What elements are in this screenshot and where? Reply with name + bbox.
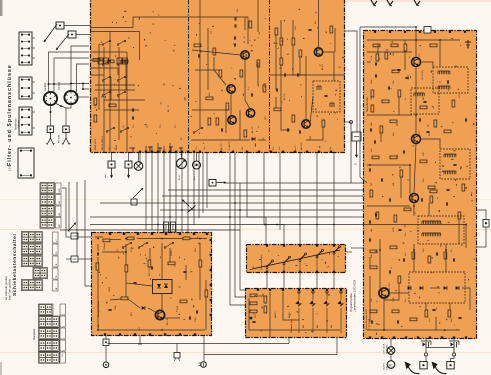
antenna glyph xyxy=(387,0,393,6)
terminal pad D right xyxy=(210,254,212,256)
terminal pad E1 xyxy=(266,271,268,273)
strip label box xyxy=(53,232,59,243)
connector block J3 xyxy=(19,107,32,135)
wire A left grid xyxy=(90,74,104,76)
junction xyxy=(53,83,55,85)
label A right xyxy=(283,93,286,100)
wire A right xyxy=(299,57,301,75)
wire B xyxy=(445,244,447,272)
label speck xyxy=(405,252,407,256)
resistor R24 xyxy=(372,156,379,159)
wire xyxy=(175,153,177,232)
antenna arm xyxy=(56,34,69,50)
wire D xyxy=(185,265,187,280)
wire A left grid xyxy=(90,68,118,75)
resistor R35 xyxy=(448,310,451,317)
svg-text:35V: 35V xyxy=(195,248,197,252)
wire junction xyxy=(409,164,411,166)
junction ring xyxy=(424,353,427,356)
wire junction xyxy=(157,224,159,226)
resistor R38 xyxy=(183,237,190,240)
terminal pad B top xyxy=(389,31,391,33)
wire loop to connector xyxy=(477,210,486,220)
wire D xyxy=(110,239,121,241)
terminal pad A xyxy=(193,151,195,153)
junction xyxy=(70,83,72,85)
terminal pad B xyxy=(429,336,431,338)
terminal pad D right xyxy=(210,314,212,316)
wire antenna to block A xyxy=(64,25,91,27)
terminal pad E1 xyxy=(283,271,285,273)
capacitor C13 xyxy=(369,168,370,171)
label A left xyxy=(147,124,149,128)
diode D9 xyxy=(323,291,329,333)
terminal tee xyxy=(148,147,152,153)
transistor T5 xyxy=(314,48,322,56)
terminal pad A xyxy=(282,151,284,153)
terminal pad B top xyxy=(404,31,406,33)
terminal pad A xyxy=(232,151,234,153)
connector circle xyxy=(103,362,109,368)
wire xyxy=(240,183,245,290)
wire can row4 xyxy=(78,96,90,98)
switch contact strip S3 xyxy=(40,206,54,217)
label speck xyxy=(209,92,211,96)
component box xyxy=(71,256,78,262)
label speck xyxy=(393,226,395,232)
capacitor C25 xyxy=(252,321,255,322)
resistor R20 xyxy=(371,90,374,97)
wire B xyxy=(421,139,441,149)
capacitor xyxy=(251,93,252,96)
wire A mid xyxy=(245,59,250,109)
transistor T7 xyxy=(412,58,421,67)
wire junction xyxy=(415,26,417,28)
capacitor xyxy=(308,29,311,30)
label D xyxy=(167,317,169,325)
terminal pad A xyxy=(318,151,320,153)
strip label box xyxy=(56,206,62,217)
resistor R1 xyxy=(93,59,100,62)
label Netztaste xyxy=(62,354,64,357)
wire xyxy=(351,247,363,249)
wire D xyxy=(205,280,207,290)
wire D xyxy=(97,257,99,263)
resistor xyxy=(410,318,417,321)
wire B xyxy=(415,31,417,58)
wire A mid bottom xyxy=(258,139,266,141)
lamp symbol dial xyxy=(387,347,395,355)
resistor R23 xyxy=(434,120,437,127)
capacitor xyxy=(183,271,186,272)
capacitor xyxy=(405,77,408,78)
inline box xyxy=(131,199,137,205)
label speck xyxy=(405,298,407,302)
svg-text:Stereo Decoder 6022: Stereo Decoder 6022 xyxy=(365,308,368,330)
svg-text:AM ZF VERST.: AM ZF VERST. xyxy=(101,135,104,150)
motor symbol xyxy=(387,361,395,369)
capacitor C23 xyxy=(189,316,190,319)
label speck xyxy=(195,248,197,252)
label speck xyxy=(322,259,324,260)
wire xyxy=(336,338,338,355)
module block E2 (switch diodes) fill xyxy=(245,288,347,338)
wire junction xyxy=(413,205,415,207)
print texture block D xyxy=(98,236,200,330)
resistor xyxy=(257,60,260,67)
rotary switch contact P5 xyxy=(333,246,341,273)
capacitor C3 xyxy=(234,36,235,39)
label auf Leiterseite gesehen xyxy=(5,275,12,300)
wire D xyxy=(190,238,207,240)
resistor R37 xyxy=(127,237,134,240)
resistor R48 xyxy=(264,306,267,313)
wire B xyxy=(413,244,415,272)
terminal pad B xyxy=(393,336,395,338)
wire to plug xyxy=(451,356,455,361)
wire xyxy=(193,153,195,225)
wire D xyxy=(199,243,201,260)
label speck xyxy=(379,57,381,60)
wire can row xyxy=(49,83,72,85)
wire D xyxy=(137,238,183,240)
wire E2 xyxy=(269,292,271,338)
wire B xyxy=(458,219,460,244)
wire junction xyxy=(193,202,195,204)
module block D (power supply) fill xyxy=(91,232,212,336)
capacitor xyxy=(151,266,152,269)
terminal pad B top xyxy=(374,31,376,33)
wire xyxy=(235,153,245,297)
label speck xyxy=(109,287,111,292)
resistor xyxy=(462,184,465,191)
terminal pad E2 top xyxy=(298,289,300,291)
strip label box xyxy=(53,280,59,291)
svg-text:AF 126: AF 126 xyxy=(251,126,254,133)
wire A left vert xyxy=(118,47,120,140)
wire A mid xyxy=(199,0,201,128)
resistor xyxy=(370,266,377,269)
wire junction xyxy=(316,224,318,226)
strip label box xyxy=(53,256,59,267)
crystal symbol xyxy=(174,353,180,362)
label speck xyxy=(371,96,373,100)
capacitor xyxy=(389,198,390,201)
label speck xyxy=(459,94,461,98)
svg-text:Filter- und Spulenanschlüsse: Filter- und Spulenanschlüsse xyxy=(7,64,13,166)
label D xyxy=(97,300,100,317)
switch contact strip K5 xyxy=(39,352,60,363)
antenna glyph xyxy=(371,0,377,6)
terminal pad E2 top xyxy=(282,289,284,291)
label speck xyxy=(145,253,147,256)
resistor R16 xyxy=(373,44,380,47)
diode D3 xyxy=(420,286,423,290)
label lug xyxy=(58,134,61,143)
wire A left vert xyxy=(125,60,127,90)
diode D5 xyxy=(456,286,459,290)
switch contact strip K2 xyxy=(39,316,60,327)
terminal pad A xyxy=(181,151,183,153)
capacitor xyxy=(287,128,288,131)
connector block J2 xyxy=(19,77,32,99)
wire A right xyxy=(318,0,320,48)
label speck xyxy=(115,144,118,150)
wire A mid xyxy=(192,109,228,111)
terminal pad B xyxy=(381,336,383,338)
capacitor C2 xyxy=(235,24,236,27)
terminal pad E1 top xyxy=(283,245,285,247)
wire strips to D xyxy=(78,258,91,260)
svg-text:UKW: UKW xyxy=(59,188,61,193)
svg-text:MW: MW xyxy=(59,201,61,205)
label speck xyxy=(315,20,317,24)
wire can F2 top2 xyxy=(77,64,90,92)
plug box xyxy=(420,362,427,369)
wire A right xyxy=(310,96,313,124)
wire xyxy=(162,195,363,197)
capacitor xyxy=(132,116,133,119)
resistor R15 xyxy=(292,115,295,122)
resistor xyxy=(428,256,431,263)
wire A left vert xyxy=(110,77,112,100)
component box above D xyxy=(164,222,169,232)
svg-text:BZY: BZY xyxy=(131,311,133,316)
svg-text:Lamellenschalter 3U02-0038: Lamellenschalter 3U02-0038 xyxy=(354,279,357,312)
resistor xyxy=(94,98,97,105)
resistor xyxy=(404,44,407,51)
resistor xyxy=(205,290,208,297)
svg-text:AM OSZ: AM OSZ xyxy=(300,142,303,150)
terminal pad D bottom xyxy=(179,333,181,335)
antenna glyph xyxy=(414,0,420,6)
svg-text:abst.: abst. xyxy=(104,173,107,178)
wire B xyxy=(435,317,437,330)
wire junction xyxy=(239,209,241,211)
resistor R41 xyxy=(121,297,128,300)
label speck xyxy=(371,229,373,232)
connector circle xyxy=(199,362,207,368)
wire D xyxy=(165,317,181,319)
wire xyxy=(60,229,240,231)
wire D horiz xyxy=(110,299,121,300)
strip label box xyxy=(60,316,66,327)
wire D top pads xyxy=(97,244,99,251)
pot adjust arrow xyxy=(133,188,143,198)
wire A left stub xyxy=(157,143,159,153)
wire xyxy=(453,339,455,341)
resistor xyxy=(208,118,211,125)
resistor R46 xyxy=(250,310,257,313)
bridge rectifier xyxy=(153,280,173,294)
capacitor C7 xyxy=(375,62,376,65)
IF filter can F2 xyxy=(64,91,77,104)
svg-text:220V: 220V xyxy=(131,246,133,252)
pot adjust arrow xyxy=(68,223,76,232)
resistor R43 xyxy=(180,300,187,303)
junction xyxy=(82,83,84,85)
label A right xyxy=(310,135,312,140)
terminal pad B top xyxy=(419,31,421,33)
plug box xyxy=(447,362,454,369)
wire can row3 xyxy=(83,84,89,90)
label speck xyxy=(103,243,106,250)
wire xyxy=(108,343,290,345)
svg-text:1M: 1M xyxy=(371,229,373,232)
switch contact xyxy=(99,40,111,45)
wire xyxy=(247,153,266,244)
lug fork xyxy=(62,132,70,144)
label speck xyxy=(253,266,255,268)
switch contact xyxy=(117,60,126,65)
wire A left stub xyxy=(145,146,147,153)
switch contact strip W1 xyxy=(22,232,43,243)
component box below A right xyxy=(352,132,361,141)
wire E2 xyxy=(283,292,299,320)
terminal blob xyxy=(250,317,253,320)
label speck xyxy=(393,296,395,302)
resistor xyxy=(398,276,401,283)
resistor R33 xyxy=(392,310,399,313)
terminal pad D top xyxy=(206,233,208,235)
diode D7 xyxy=(295,291,301,333)
wire output link xyxy=(426,348,454,353)
wire A right xyxy=(306,127,323,140)
resistor R27 xyxy=(394,215,397,222)
resistor R36 xyxy=(103,239,110,242)
wire B xyxy=(430,287,440,289)
label speck xyxy=(371,182,373,186)
resistor R30 xyxy=(412,252,415,259)
terminal pad E2 top xyxy=(269,289,271,291)
label speck xyxy=(177,305,179,310)
scan edge mark top-left xyxy=(0,0,3,16)
resistor R8 xyxy=(226,103,229,110)
wire D xyxy=(205,297,207,330)
ratio dashed box5 xyxy=(409,272,465,303)
terminal pad D right xyxy=(210,284,212,286)
ground cap xyxy=(465,40,471,48)
capacitor xyxy=(381,178,382,181)
resistor xyxy=(398,90,401,97)
wire B xyxy=(421,62,434,67)
wire A right xyxy=(281,65,290,130)
svg-text:Schiebetastenschalter: Schiebetastenschalter xyxy=(12,233,17,296)
wire junction xyxy=(161,238,163,240)
wire xyxy=(224,182,363,184)
label speck xyxy=(423,248,425,252)
component box above D xyxy=(171,222,176,232)
capacitor C21 xyxy=(97,252,98,255)
capacitor xyxy=(198,54,199,57)
resistor R34 xyxy=(425,310,428,317)
capacitor xyxy=(432,309,435,310)
wire junction xyxy=(445,249,447,251)
terminal pad A xyxy=(139,151,141,153)
wire junction xyxy=(181,209,183,211)
scan line artifact top xyxy=(340,0,491,2)
label E2 xyxy=(290,319,293,333)
wire loop from connector xyxy=(477,227,486,247)
capacitor C9 xyxy=(397,69,400,70)
wire B xyxy=(369,276,371,322)
pot adjust arrow xyxy=(182,200,196,213)
module block D border xyxy=(92,233,212,336)
wire A mid xyxy=(239,110,241,140)
terminal pad A xyxy=(175,151,177,153)
svg-text:LW: LW xyxy=(59,213,61,216)
wire B xyxy=(367,61,371,63)
wire xyxy=(206,153,208,208)
label can F2 xyxy=(58,81,61,90)
label speck xyxy=(273,147,275,150)
spade lug arrow xyxy=(110,168,113,179)
svg-text:Klangtaste: Klangtaste xyxy=(33,328,36,340)
svg-text:keine Taste gedrückt: keine Taste gedrückt xyxy=(9,279,12,300)
svg-text:M: M xyxy=(389,364,392,368)
stub below D xyxy=(138,336,142,344)
switch contact strip S4 xyxy=(40,217,54,228)
decoder dashed box2 xyxy=(411,88,439,114)
connector stub xyxy=(32,82,35,93)
wire xyxy=(151,153,153,230)
switch contact strip K4 xyxy=(39,340,60,351)
label speck xyxy=(429,318,431,322)
capacitor C4 xyxy=(234,43,235,46)
wire A left vert xyxy=(126,52,128,153)
resistor R26 xyxy=(370,190,373,197)
wire junction xyxy=(97,329,99,331)
svg-text:K4/7RX: K4/7RX xyxy=(58,81,61,90)
svg-text:auf Leiterseite gesehen,: auf Leiterseite gesehen, xyxy=(5,275,8,300)
svg-text:250mA: 250mA xyxy=(103,243,106,250)
wire junction xyxy=(264,224,266,226)
label B xyxy=(408,52,424,80)
lug fork xyxy=(46,132,54,144)
terminal pad E2 top xyxy=(257,289,259,291)
capacitor C18 xyxy=(371,320,372,323)
wire xyxy=(198,153,200,218)
terminal pad B xyxy=(369,336,371,338)
capacitor xyxy=(419,118,420,121)
connector box right of B xyxy=(483,220,489,228)
label speck xyxy=(175,124,177,128)
terminal pad E1 top xyxy=(299,245,301,247)
connector block J1 xyxy=(19,32,32,65)
wire xyxy=(181,153,183,232)
resistor R7 xyxy=(240,70,243,77)
wire B xyxy=(379,239,381,288)
terminal pad B xyxy=(465,336,467,338)
antenna plug box xyxy=(68,31,76,38)
wire A left grid xyxy=(90,51,127,53)
wire A left row xyxy=(95,84,135,86)
print texture block B xyxy=(375,38,476,335)
resistor xyxy=(109,104,116,107)
resistor R12 xyxy=(280,58,283,65)
wire E1-E2 link xyxy=(266,273,268,288)
terminal pad E2 top xyxy=(340,289,342,291)
wire xyxy=(176,344,178,353)
svg-text:SIEB: SIEB xyxy=(109,287,111,292)
wire junction xyxy=(125,238,127,240)
resistor xyxy=(420,160,427,163)
resistor xyxy=(376,54,379,61)
label speck xyxy=(289,267,291,268)
capacitor C20 xyxy=(458,317,461,318)
terminal pad D bottom xyxy=(104,333,106,335)
capacitor xyxy=(221,128,222,131)
